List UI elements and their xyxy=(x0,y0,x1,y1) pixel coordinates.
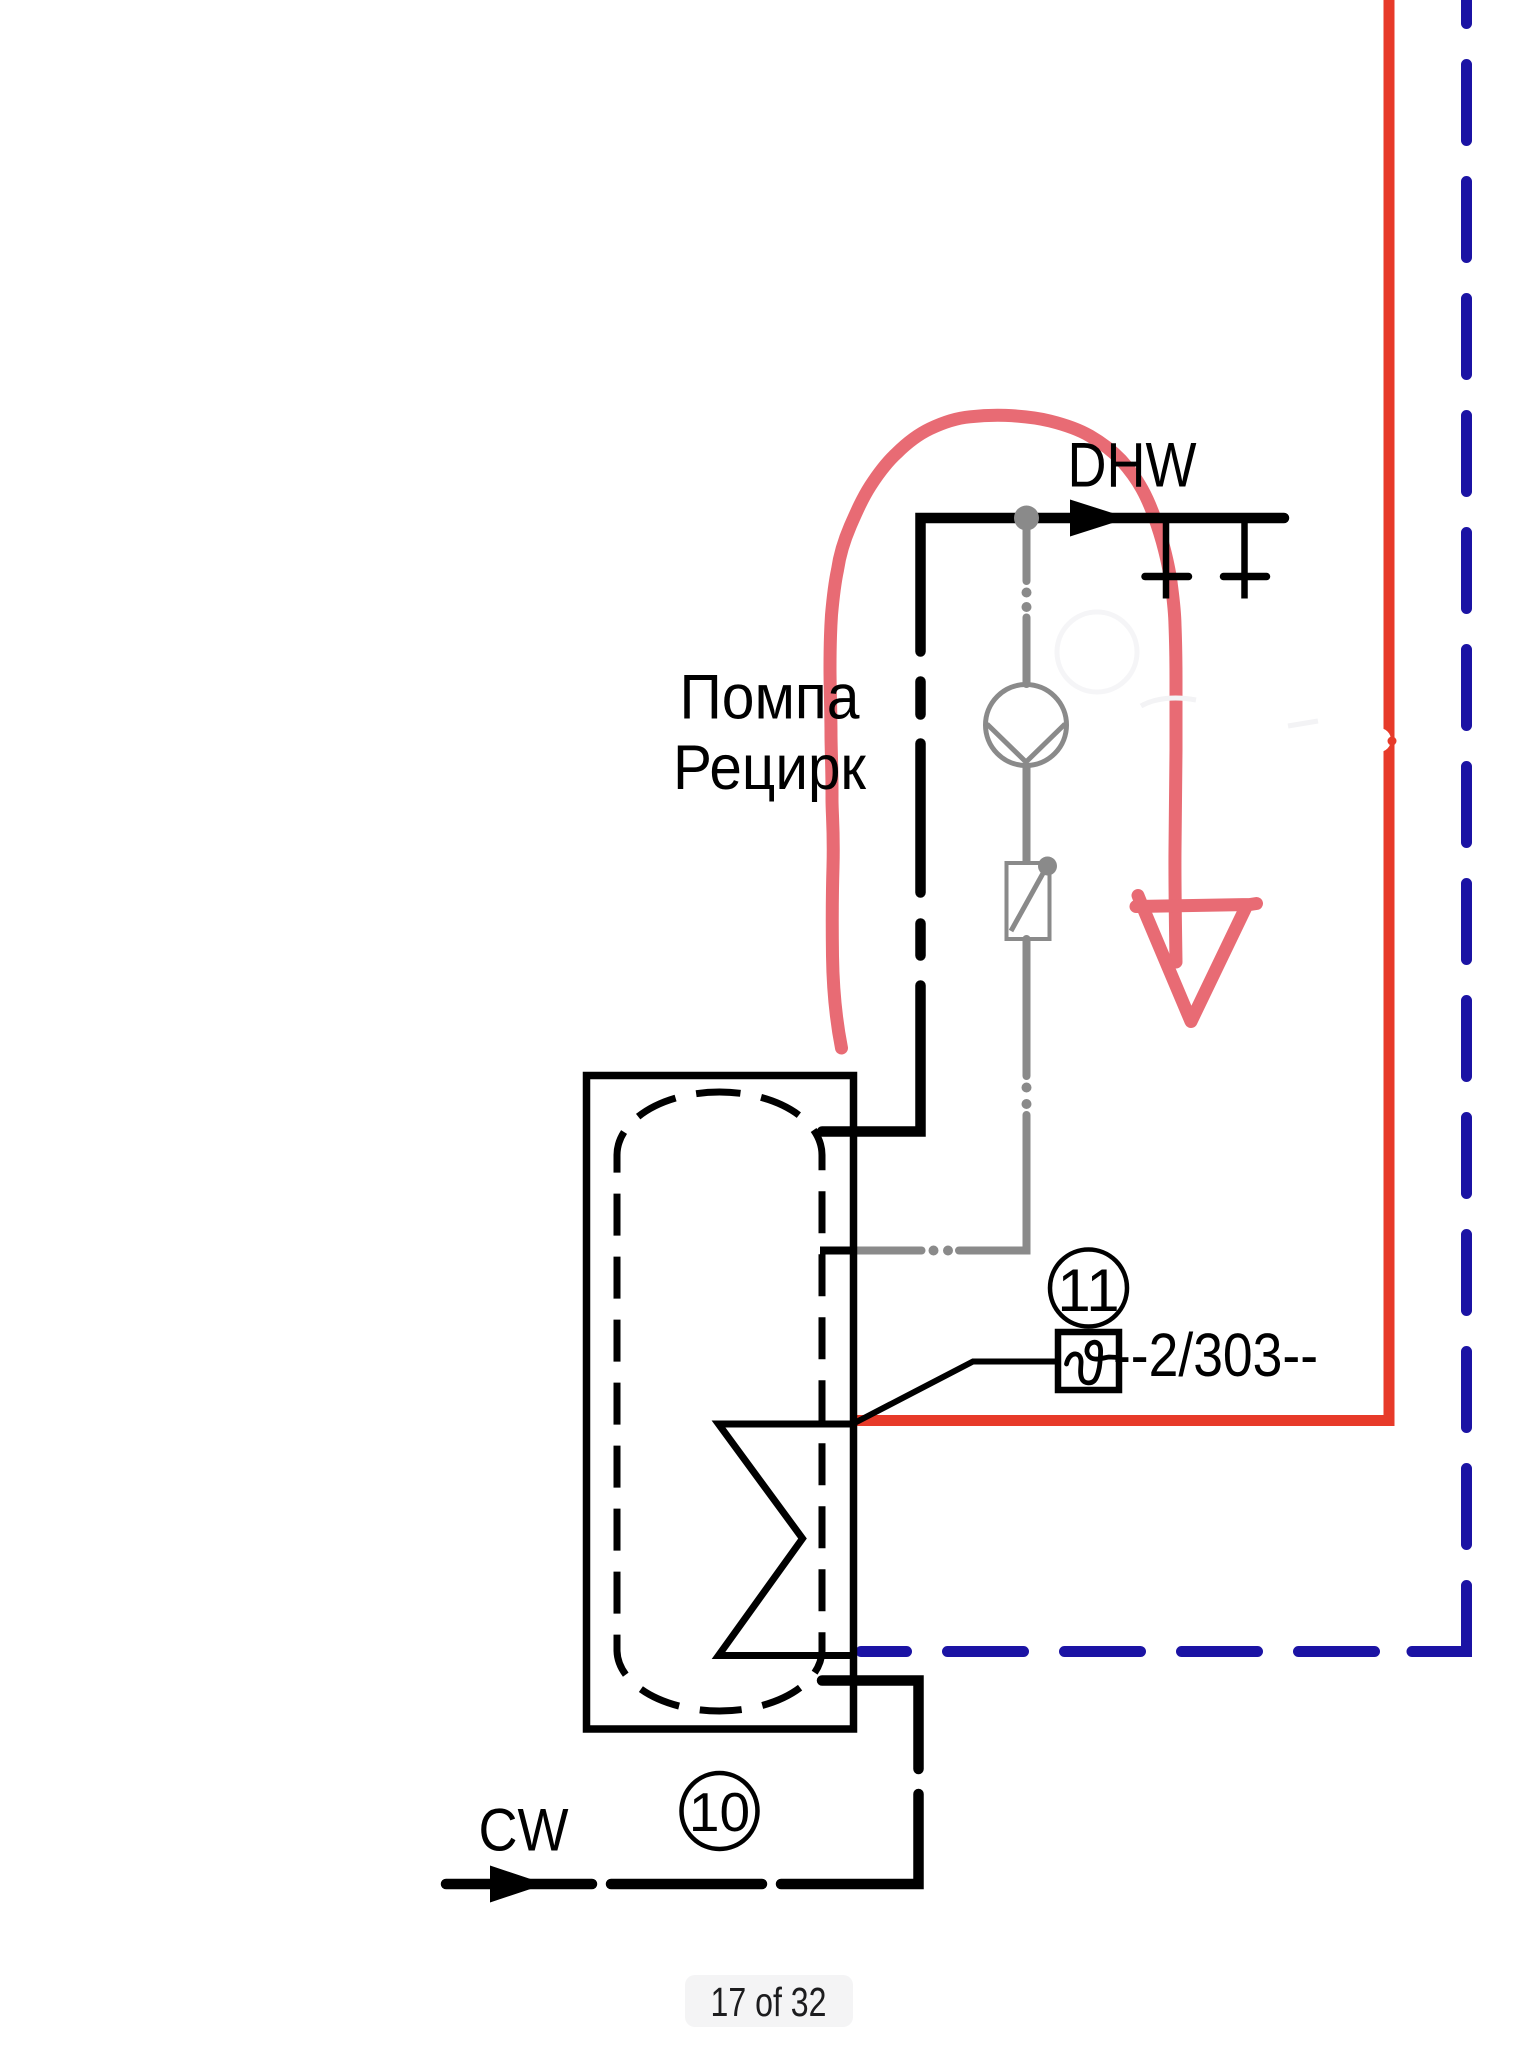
DHW riser bottom dash + pipe into tank xyxy=(822,986,921,1132)
CW arrow xyxy=(490,1866,546,1903)
temperature sensor box xyxy=(1058,1332,1119,1390)
faint erased ghost marks xyxy=(1057,612,1137,692)
pump (circulation pump) xyxy=(986,685,1067,766)
svg-text:17 of 32: 17 of 32 xyxy=(711,1979,827,2025)
tank inner vessel (dashed) xyxy=(617,1092,822,1711)
CW horizontal dashes xyxy=(611,1879,762,1890)
sensor lead from coil xyxy=(854,1362,1059,1424)
label circle 11 xyxy=(1050,1250,1127,1327)
draw-off tap 2 crossbar xyxy=(1224,573,1267,581)
tick: vessel to shell at gray pipe xyxy=(820,1247,857,1255)
heat exchanger coil xyxy=(719,1424,854,1656)
draw-off tap 2 stem xyxy=(1241,521,1248,599)
svg-text:CW: CW xyxy=(479,1796,569,1864)
DHW arrow xyxy=(1070,500,1128,537)
annotation arrow head xyxy=(1136,896,1257,1022)
svg-text:10: 10 xyxy=(689,1781,750,1843)
draw-off tap 1 crossbar xyxy=(1145,573,1189,581)
hand-drawn red annotation xyxy=(830,415,1257,1048)
recirculation pipe (gray dash-dot-dot) upper segment xyxy=(1023,518,1031,581)
svg-text:11: 11 xyxy=(1057,1257,1119,1324)
annotation arc with wobble xyxy=(830,415,1176,1048)
draw-off tap 1 stem xyxy=(1163,521,1170,599)
blue return line corner xyxy=(1412,1647,1467,1652)
white artifact dot on red line xyxy=(1367,728,1391,752)
tank outer shell xyxy=(587,1076,854,1730)
blue return line vertical (dashed) xyxy=(1461,0,1472,1652)
label circle 10 xyxy=(682,1773,758,1849)
CW pipe corner dash 2 xyxy=(781,1794,919,1884)
red flow line (hot supply) xyxy=(851,0,1389,1421)
gray pipe corner into tank xyxy=(959,1115,1027,1251)
pipe below valve xyxy=(1023,939,1031,1076)
DHW pipe horizontal + corner down xyxy=(921,518,1285,652)
svg-text:--2/303--: --2/303-- xyxy=(1113,1321,1318,1389)
blue return line horizontal (dashed) xyxy=(861,1646,1380,1657)
junction node dot xyxy=(1014,506,1039,531)
pipe pump to valve xyxy=(1023,765,1031,864)
sensor theta glyph xyxy=(1067,1342,1120,1383)
page indicator pill xyxy=(685,1975,853,2027)
check valve (gray rect with diagonal) xyxy=(1007,863,1050,939)
DHW riser dash segments xyxy=(915,682,926,715)
CW pipe from tank: corner dash 1 xyxy=(822,1681,919,1770)
